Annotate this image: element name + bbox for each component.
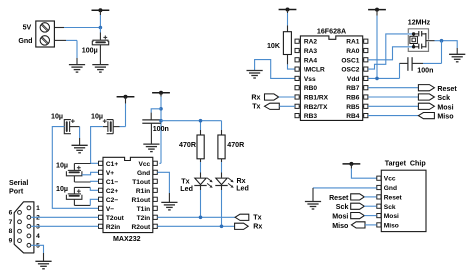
power rail above C5 (117, 95, 135, 127)
wire DB9 pin3 to R2in (31, 225, 99, 227)
wire T2in net (157, 216, 235, 218)
svg-text:8: 8 (9, 228, 13, 235)
svg-text:RB3: RB3 (304, 113, 318, 120)
resistor R1 10K (267, 32, 291, 55)
svg-text:Gnd: Gnd (384, 185, 397, 192)
wire C5 left lead down to C1+ (91, 127, 108, 164)
svg-text:470R: 470R (227, 141, 244, 149)
svg-text:Target Chip: Target Chip (385, 160, 427, 168)
svg-text:Port: Port (9, 188, 24, 196)
svg-text:RB0: RB0 (304, 85, 318, 92)
wire R1 to MCLR (288, 55, 296, 70)
svg-text:Miso: Miso (332, 222, 349, 230)
IC U2 MAX232 body (103, 157, 153, 243)
svg-text:10µ: 10µ (56, 185, 68, 193)
wire C3 bottom lead to C2- (90, 199, 98, 205)
wire RB4 to Miso port (368, 115, 418, 117)
wire junction down to C1 (99, 28, 101, 41)
svg-text:9: 9 (9, 238, 13, 245)
wire branch to C6 (151, 109, 161, 120)
svg-text:16F628A: 16F628A (317, 27, 346, 35)
svg-text:7: 7 (9, 219, 13, 226)
svg-text:10K: 10K (267, 42, 281, 50)
svg-text:Vss: Vss (304, 76, 316, 83)
resistor R2 470R (179, 135, 204, 159)
svg-text:T2out: T2out (106, 215, 125, 222)
ground under C6 (143, 144, 159, 152)
svg-text:C1+: C1+ (106, 161, 118, 168)
svg-text:T1out: T1out (132, 179, 151, 186)
svg-text:Rx: Rx (253, 223, 262, 231)
svg-text:C1−: C1− (106, 179, 118, 186)
node Rx port left of U1 (251, 93, 278, 101)
svg-text:RA3: RA3 (304, 48, 318, 55)
wire V- net long run (52, 127, 98, 209)
node junction D1 T2in (199, 216, 203, 220)
wire RB to Mosi port (368, 105, 418, 107)
svg-text:RB2/TX: RB2/TX (304, 104, 328, 111)
node Miso port (418, 113, 454, 121)
node junction decoupling branch (440, 39, 444, 43)
wire RB to Reset port (368, 87, 418, 89)
svg-text:RB1/RX: RB1/RX (304, 95, 329, 102)
svg-text:V−: V− (106, 206, 114, 213)
svg-text:10µ: 10µ (51, 113, 63, 121)
svg-text:Vcc: Vcc (384, 176, 396, 183)
svg-text:R1in: R1in (136, 188, 150, 195)
node junction R2 top (199, 119, 203, 123)
svg-text:6: 6 (9, 209, 13, 216)
svg-text:RB7: RB7 (346, 85, 360, 92)
svg-text:Reset: Reset (437, 85, 457, 93)
wire 5V terminal to rail (54, 27, 100, 29)
svg-text:RA4: RA4 (304, 57, 318, 64)
capacitor C5 10u C1+ to rail (91, 112, 113, 133)
svg-text:4: 4 (36, 233, 40, 240)
svg-text:V+: V+ (106, 170, 114, 177)
svg-text:Led: Led (236, 185, 249, 193)
wire C3 top lead to C2+ (90, 187, 98, 190)
node junction Vdd riser (375, 77, 379, 81)
svg-text:100n: 100n (417, 66, 433, 74)
svg-text:Vdd: Vdd (347, 76, 359, 83)
svg-text:Tx: Tx (252, 103, 260, 111)
svg-text:Led: Led (180, 185, 193, 193)
svg-text:Mosi: Mosi (384, 213, 399, 220)
svg-text:Gnd: Gnd (18, 37, 32, 45)
svg-text:Sck: Sck (437, 94, 450, 102)
wire C1 to ground (99, 45, 101, 65)
ground DB9 shell (35, 261, 51, 269)
IC target chip body (381, 160, 426, 232)
wire resonator centre pin to ground (435, 41, 458, 55)
svg-text:RA1: RA1 (346, 39, 360, 46)
ground right of resonator (449, 54, 465, 62)
wire Vdd net (368, 63, 408, 78)
svg-text:Miso: Miso (384, 222, 399, 229)
wire 100n to junction (412, 41, 441, 64)
svg-text:100n: 100n (153, 125, 169, 133)
svg-text:RB5: RB5 (346, 104, 360, 111)
capacitor C4 10u V- to ground (51, 113, 75, 134)
wire U2 Gnd pin to ground (157, 172, 169, 202)
node Sck port (418, 94, 450, 102)
node junction 100n branch (159, 107, 163, 111)
power rail above 10K (279, 8, 297, 32)
capacitor C2 10u flying C1 (56, 162, 91, 182)
svg-text:MAX232: MAX232 (113, 235, 141, 243)
wire Gnd terminal to ground (54, 40, 77, 64)
wire D1 cathode to T2in net (200, 186, 202, 218)
svg-text:R2out: R2out (132, 224, 151, 231)
wire C2 bottom lead to C1- (91, 180, 99, 183)
power rail above Vdd (368, 8, 386, 79)
capacitor C3 10u flying C2 (56, 185, 90, 205)
wire Vss to ground (255, 60, 295, 79)
svg-text:Reset: Reset (329, 194, 349, 202)
wire C4 plus lead to ground (70, 127, 80, 146)
node Reset port (418, 85, 457, 93)
wire DB9 pin2 to T2out (31, 216, 99, 218)
wire R2out net (157, 225, 234, 227)
node Reset port target (329, 194, 377, 202)
svg-text:Tx: Tx (253, 214, 261, 222)
node Miso port target (332, 222, 376, 230)
svg-text:RA2: RA2 (304, 39, 318, 46)
svg-text:RB6: RB6 (346, 95, 360, 102)
wire V+ to C2 cup (82, 172, 99, 175)
svg-text:Mosi: Mosi (437, 103, 453, 111)
LED D1 Tx (180, 159, 212, 193)
ground under terminal (69, 65, 85, 73)
wire DB9 pin5 to ground (31, 245, 44, 261)
capacitor C6 100n MAX232 (142, 120, 169, 133)
svg-text:OSC2: OSC2 (341, 67, 359, 74)
power rail target Vcc (343, 162, 377, 178)
svg-text:Miso: Miso (437, 113, 454, 121)
resistor R3 470R (218, 135, 244, 159)
node Sck port target (336, 203, 377, 211)
label serial port (9, 179, 28, 196)
node junction 5V (99, 26, 103, 30)
terminal block J1 (18, 21, 54, 47)
ground under C4 (72, 145, 88, 153)
svg-text:Mosi: Mosi (332, 213, 348, 221)
target chip pins (377, 176, 403, 230)
svg-text:10µ: 10µ (91, 112, 103, 120)
LED D2 Rx (215, 159, 249, 193)
svg-text:Sck: Sck (336, 203, 349, 211)
svg-text:OSC1: OSC1 (341, 57, 359, 64)
wire C5 right lead to rail riser (113, 126, 125, 128)
node Mosi port (418, 103, 453, 111)
svg-text:Vcc: Vcc (138, 161, 150, 168)
wire D2 cathode to R2out net (221, 186, 223, 227)
svg-text:C2+: C2+ (106, 188, 118, 195)
svg-text:1: 1 (36, 205, 40, 212)
ground target chip (305, 202, 321, 210)
wire C6 to ground (150, 123, 152, 144)
svg-text:Reset: Reset (384, 194, 403, 201)
svg-text:Serial: Serial (9, 179, 28, 187)
node junction 470R rail (159, 119, 163, 123)
svg-text:470R: 470R (179, 141, 196, 149)
ground under U2 Gnd (161, 202, 177, 210)
U2 left pins (99, 161, 125, 231)
svg-text:10µ: 10µ (56, 162, 68, 170)
svg-text:T1in: T1in (137, 206, 151, 213)
svg-text:\MCLR: \MCLR (304, 67, 325, 74)
svg-text:R1out: R1out (132, 197, 151, 204)
svg-text:100µ: 100µ (82, 47, 98, 55)
svg-text:C2−: C2− (106, 197, 118, 204)
svg-text:RA0: RA0 (346, 48, 360, 55)
wire OSC2 to resonator upper terminal (368, 34, 414, 69)
wire rail to 470R resistors (161, 121, 222, 135)
resonator X1 12MHz (408, 18, 435, 51)
capacitor C1 100u electrolytic (82, 36, 109, 55)
power rail +5V top-left (92, 8, 110, 27)
svg-text:12MHz: 12MHz (408, 18, 431, 26)
svg-text:R2in: R2in (106, 224, 120, 231)
ground near Vss (247, 71, 263, 79)
U1 left pins (295, 39, 329, 120)
wire OSC1 to resonator lower terminal (368, 47, 414, 60)
wire RB to Sck port (368, 96, 418, 98)
node Tx port left of U1 (252, 103, 279, 111)
svg-text:5V: 5V (23, 23, 32, 31)
svg-text:Rx: Rx (251, 93, 260, 101)
node Mosi port target (332, 213, 376, 221)
wire target Gnd to ground (313, 188, 377, 202)
power rail above MAX232 (152, 91, 170, 164)
U2 right pins (132, 161, 158, 231)
svg-text:RB4: RB4 (346, 113, 360, 120)
node junction D2 R2out (220, 225, 224, 229)
svg-text:Sck: Sck (384, 204, 396, 211)
capacitor C7 100n near PIC (408, 57, 434, 74)
IC U1 16F628A body (300, 27, 362, 120)
ground under C1 (92, 65, 108, 73)
node Rx port right of U2 (235, 223, 263, 231)
U1 right pins (341, 39, 367, 120)
connector J2 DB9 (9, 202, 40, 253)
node Tx port right of U2 (235, 214, 262, 222)
wire Rx to RB1/RX (279, 96, 295, 98)
wire Tx to RB2/TX (279, 105, 295, 107)
svg-text:T2in: T2in (137, 215, 151, 222)
svg-text:Gnd: Gnd (137, 170, 150, 177)
